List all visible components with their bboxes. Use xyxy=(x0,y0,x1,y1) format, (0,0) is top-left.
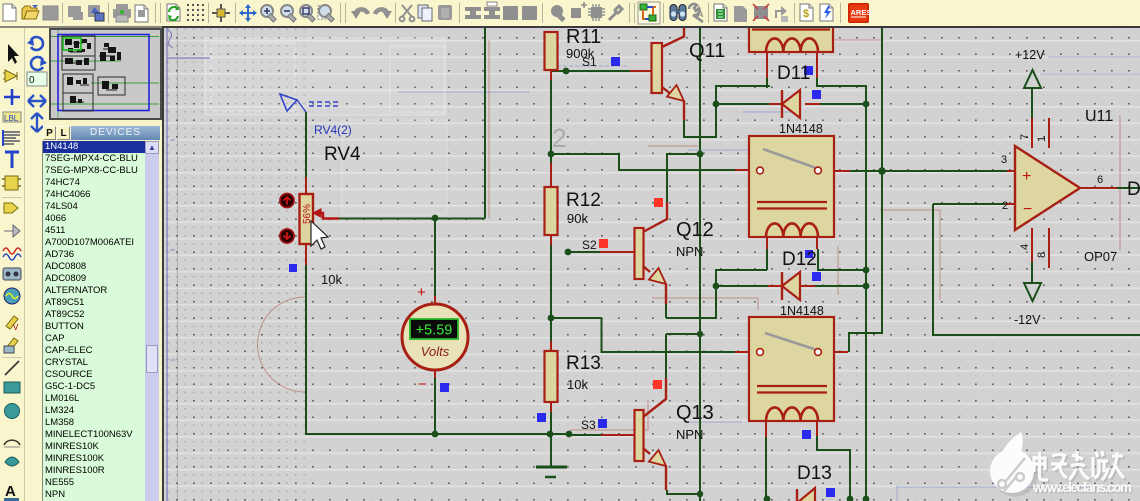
svg-text:1: 1 xyxy=(1036,136,1048,142)
svg-text:−: − xyxy=(418,376,427,393)
svg-text:ARES: ARES xyxy=(851,8,872,17)
svg-text:+: + xyxy=(417,284,426,301)
svg-text:S2: S2 xyxy=(582,238,597,252)
svg-text:R12: R12 xyxy=(566,190,601,211)
svg-text:6: 6 xyxy=(1097,174,1103,186)
svg-text:U11: U11 xyxy=(1085,108,1113,125)
svg-text:2: 2 xyxy=(552,123,566,153)
svg-text:RV4(2): RV4(2) xyxy=(314,123,352,137)
svg-text:1N4148: 1N4148 xyxy=(779,122,823,136)
svg-text:A: A xyxy=(5,483,16,500)
svg-text:NPN: NPN xyxy=(676,427,703,442)
svg-text:0: 0 xyxy=(29,75,35,86)
svg-text:OP07: OP07 xyxy=(1084,249,1117,264)
svg-text:D13: D13 xyxy=(797,463,832,484)
svg-text:$: $ xyxy=(803,8,809,20)
svg-text:D11: D11 xyxy=(777,63,810,84)
svg-text:1N4148: 1N4148 xyxy=(780,304,824,318)
svg-text:D: D xyxy=(1127,179,1140,200)
svg-text:S3: S3 xyxy=(581,418,596,432)
svg-text:V: V xyxy=(13,323,19,332)
svg-text:R11: R11 xyxy=(566,28,601,48)
svg-text:Volts: Volts xyxy=(421,344,450,359)
svg-text:Q13: Q13 xyxy=(676,402,714,424)
svg-text:4: 4 xyxy=(1019,244,1031,250)
svg-text:7: 7 xyxy=(1019,134,1031,140)
svg-text:S1: S1 xyxy=(582,55,597,69)
svg-text:+5.59: +5.59 xyxy=(416,323,453,339)
svg-text:RV4: RV4 xyxy=(324,144,361,165)
svg-text:+12V: +12V xyxy=(1015,48,1045,62)
svg-text:Q11: Q11 xyxy=(689,40,725,62)
svg-text:Q12: Q12 xyxy=(676,219,714,241)
svg-text:LBL: LBL xyxy=(4,114,19,123)
svg-text:D12: D12 xyxy=(782,249,817,270)
svg-text:3: 3 xyxy=(1001,154,1007,166)
svg-text:NPN: NPN xyxy=(676,244,703,259)
svg-text:10k: 10k xyxy=(567,377,588,392)
svg-text:10k: 10k xyxy=(321,272,342,287)
svg-text:-12V: -12V xyxy=(1014,313,1041,327)
svg-text:www.elecfans.com: www.elecfans.com xyxy=(1032,480,1132,495)
svg-text:2: 2 xyxy=(1002,200,1008,212)
svg-text:90k: 90k xyxy=(567,211,588,226)
svg-text:A: A xyxy=(697,9,704,19)
svg-text:−: − xyxy=(1023,201,1032,218)
svg-text:8: 8 xyxy=(1036,252,1048,258)
svg-text:+: + xyxy=(1022,168,1031,185)
svg-text:R13: R13 xyxy=(566,353,601,374)
